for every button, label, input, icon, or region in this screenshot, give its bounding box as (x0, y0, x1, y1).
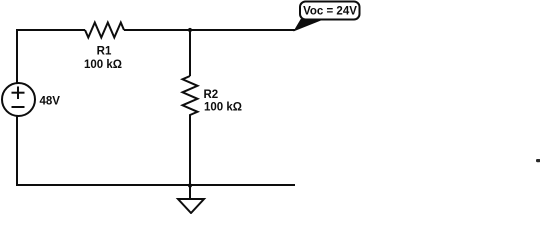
svg-text:Voc = 24V: Voc = 24V (303, 6, 357, 18)
wire left vertical lower (16, 116, 18, 186)
callout Voc = 24V (295, 2, 360, 31)
node bottom junction (188, 183, 192, 187)
wire top-left horizontal (16, 29, 85, 31)
ground (178, 199, 204, 213)
voltage source 48V (2, 83, 60, 116)
svg-text:48V: 48V (40, 96, 61, 108)
stray mark right edge (536, 159, 540, 162)
wire ground stub (189, 185, 191, 199)
svg-text:R1: R1 (97, 46, 112, 58)
wire top-right horizontal (124, 29, 295, 31)
resistor R1 (84, 23, 124, 72)
svg-text:100 kΩ: 100 kΩ (84, 59, 122, 71)
node top junction (188, 28, 192, 32)
wire R2 top vertical (189, 30, 191, 76)
wire bottom horizontal (16, 184, 295, 186)
wire left vertical upper (16, 29, 18, 84)
svg-text:100 kΩ: 100 kΩ (204, 102, 242, 114)
wire R2 bottom vertical (189, 125, 191, 186)
resistor R2 (183, 76, 243, 125)
svg-text:R2: R2 (204, 89, 219, 101)
